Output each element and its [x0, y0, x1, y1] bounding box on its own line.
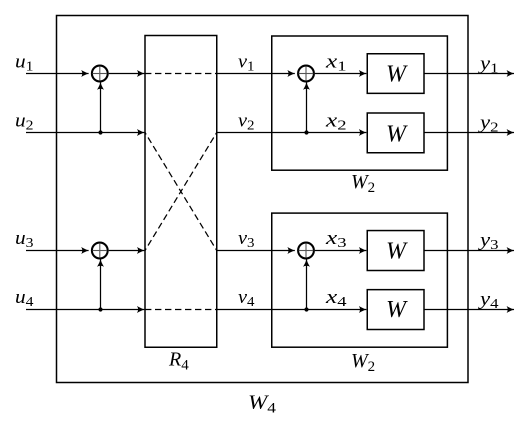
permutation block R4 box — [145, 36, 217, 348]
wire adder A2 to W box 1 — [315, 73, 366, 75]
junction x2 branch — [304, 130, 308, 134]
wire dashed row4 inside R4 — [145, 309, 217, 311]
svg-text:W: W — [386, 239, 408, 265]
junction u4 branch — [98, 307, 102, 311]
wire y4 output — [424, 309, 514, 311]
wire v2 to W box 2 — [217, 132, 367, 134]
adder A2 — [298, 66, 314, 82]
wire x4 branch up to adder A4 — [306, 259, 308, 309]
upper block W2 box — [272, 36, 448, 170]
wire u4 input to R4 — [26, 309, 144, 311]
wire y1 output — [424, 73, 514, 75]
wire adder A1 to R4 — [109, 73, 145, 75]
outer block W4 box — [57, 16, 469, 383]
svg-text:W: W — [386, 297, 408, 323]
svg-text:W: W — [386, 62, 408, 88]
block W box 1 — [367, 54, 424, 94]
junction u2 branch — [98, 130, 102, 134]
wire y3 output — [424, 250, 514, 252]
block W box 3 — [367, 231, 424, 271]
wire adder A4 to W box 3 — [315, 250, 366, 252]
wire y2 output — [424, 132, 514, 134]
block W box 2 — [367, 113, 424, 153]
lower block W2 box — [272, 213, 448, 347]
wire u2 branch up to adder A1 — [100, 82, 102, 132]
wire u4 branch up to adder A3 — [100, 259, 102, 309]
wire v4 to W box 4 — [217, 309, 367, 311]
junction x4 branch — [304, 307, 308, 311]
wire dashed diagonal R4 up — [145, 133, 217, 251]
block W box 4 — [367, 290, 424, 330]
wire u1 input to adder A1 — [26, 73, 89, 75]
wire u3 input to adder A3 — [26, 250, 89, 252]
wire x2 branch up to adder A2 — [306, 82, 308, 132]
wire dashed row1 inside R4 — [145, 73, 217, 75]
adder A3 — [92, 243, 108, 259]
wire adder A3 to R4 — [109, 250, 145, 252]
svg-text:W: W — [386, 122, 408, 148]
wire v3 to adder A4 — [217, 250, 295, 252]
wire v1 to adder A2 — [217, 73, 295, 75]
adder A1 — [92, 66, 108, 82]
wire dashed diagonal R4 down — [145, 133, 217, 251]
adder A4 — [298, 243, 314, 259]
wire u2 input to R4 — [26, 132, 144, 134]
